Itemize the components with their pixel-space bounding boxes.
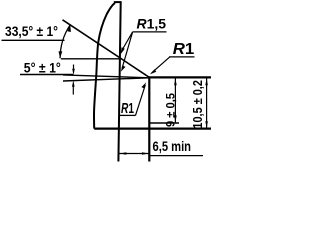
5 deg wedge: lower leg, nearly horizontal <box>63 78 149 81</box>
svg-text:6,5 min: 6,5 min <box>153 139 192 154</box>
svg-text:R1: R1 <box>173 41 195 58</box>
10,5 +- 0,2 dimension line <box>206 78 208 128</box>
right groove wall vertical and extension down <box>148 77 150 162</box>
leader shelf under 33.5 text <box>2 39 65 41</box>
5 deg dimension lower arrow pointing up <box>72 87 74 95</box>
6,5 min dimension line with inside arrows <box>119 153 149 155</box>
bottom R1 leader rising to corner C <box>136 85 146 115</box>
arc lower arrowhead pointing down <box>59 51 63 58</box>
text 6,5 min shelf line <box>149 155 203 157</box>
leader shelf under R1,5 <box>133 31 167 33</box>
leader shelf under bottom R1 <box>120 114 136 116</box>
step top edge from corner C to right <box>149 76 212 78</box>
part bottom edge <box>94 128 211 130</box>
33.5 deg sloped face line extended up-left for dimension <box>63 20 150 78</box>
leader shelf under top R1 <box>169 56 195 58</box>
groove bottom reference line <box>149 122 179 124</box>
5 deg dimension upper arrow pointing down <box>73 65 75 70</box>
part outline: left curved edge from bottom corner up to apex <box>94 3 115 129</box>
R1,5 leader branch 2 to lower junction on vertical line <box>122 32 133 69</box>
svg-text:R1,5: R1,5 <box>137 16 167 32</box>
svg-text:9 ± 0,5: 9 ± 0,5 <box>164 93 178 127</box>
leader shelf under 5 deg text <box>20 74 73 76</box>
part outline: tooth right vertical edge and extension line, slightly tilted <box>118 2 120 162</box>
part outline: apex top tiny segment <box>114 1 122 3</box>
R1,5 leader branch 1 to upper junction <box>122 32 133 51</box>
svg-text:R1: R1 <box>121 100 134 117</box>
dimension arc for 33.5 deg angle <box>60 25 70 59</box>
svg-text:5° ± 1°: 5° ± 1° <box>24 61 61 76</box>
5 deg wedge: upper leg <box>63 75 149 78</box>
arc upper arrowhead pointing up along sloped line <box>67 25 71 32</box>
top R1 leader to corner C <box>152 57 170 73</box>
svg-text:33,5° ± 1°: 33,5° ± 1° <box>5 23 58 39</box>
9 +- 0,5 dimension line <box>174 78 176 122</box>
svg-text:10,5 ± 0,2: 10,5 ± 0,2 <box>190 80 205 129</box>
horizontal reference line of 33.5 deg angle <box>61 58 121 60</box>
